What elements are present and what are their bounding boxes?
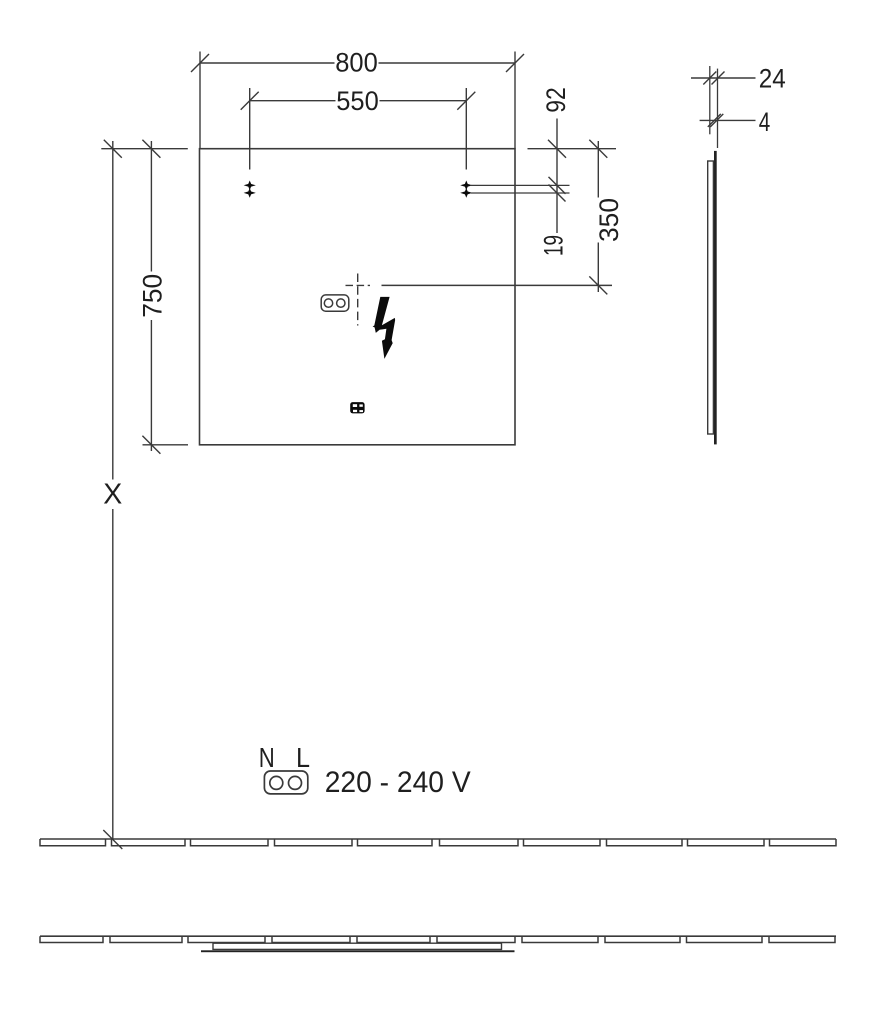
extension line mirror bottom left [143, 444, 189, 446]
side view extension line front [717, 69, 719, 148]
svg-text:19: 19 [539, 235, 569, 256]
socket symbol on mirror: body [321, 295, 349, 311]
dim 800 tick left [191, 54, 209, 72]
svg-text:24: 24 [759, 64, 786, 94]
dim 350 line [597, 141, 599, 292]
lightning bolt arrow [373, 297, 396, 359]
mounting star lower-left [245, 189, 254, 197]
supply socket hole N [270, 776, 283, 789]
svg-text:N: N [259, 742, 275, 773]
mirror front view outline [200, 149, 516, 445]
dim 24 line [691, 77, 756, 79]
dim 750 tick bottom [142, 436, 160, 454]
mount slot line upper [471, 184, 570, 186]
dim X tick top [104, 140, 122, 158]
socket symbol on mirror: hole right [337, 299, 345, 307]
side view extension line back [709, 66, 711, 134]
svg-text:350: 350 [594, 198, 624, 242]
crosshair horizontal dashed [346, 284, 371, 286]
svg-text:220 - 240 V: 220 - 240 V [325, 766, 471, 799]
mirror top view: back panel [213, 943, 502, 949]
dim 92/19 line [556, 119, 558, 234]
dim 550 line [250, 100, 467, 102]
dim 800 tick right [506, 54, 524, 72]
dim 92 tick top [548, 140, 566, 158]
mounting star upper-left [245, 182, 254, 190]
wall line top view: top line [40, 935, 836, 937]
mounting star lower-right [462, 189, 471, 197]
dim X line [112, 141, 114, 839]
svg-text:750: 750 [137, 274, 167, 318]
side view: glass pane [714, 151, 717, 445]
dim 19 tick upper [549, 177, 566, 194]
dim 550 extension line left [249, 88, 251, 170]
wall line front view: brick segments [40, 839, 836, 846]
dim 800 extension line left [199, 52, 201, 149]
dim 550 extension line right [465, 88, 467, 170]
socket symbol on mirror: hole left [324, 299, 332, 307]
svg-text:550: 550 [336, 86, 379, 116]
svg-text:92: 92 [541, 87, 571, 113]
svg-text:L: L [296, 742, 310, 773]
dim 4 tick b [710, 114, 723, 127]
mount slot line lower [471, 192, 570, 194]
supply socket symbol body [264, 771, 307, 794]
dim 19 tick lower [549, 185, 566, 202]
extension line mirror top left [101, 148, 188, 150]
extension line mirror top right [528, 148, 617, 150]
svg-text:800: 800 [335, 48, 378, 78]
dim X tick bottom [103, 830, 122, 849]
svg-text:X: X [103, 479, 122, 511]
dim 24 tick back [703, 72, 716, 85]
dim 350 tick top [589, 140, 607, 158]
mounting star upper-right [462, 182, 471, 190]
dim 550 tick right [457, 92, 475, 110]
dim 800 extension line right [514, 52, 516, 149]
dim 750 tick top [142, 140, 160, 158]
dim 750 line [150, 141, 152, 451]
crosshair vertical dashed [357, 274, 359, 326]
dim 350 tick bottom [589, 276, 607, 294]
wall line top view: brick segments [40, 936, 835, 942]
dim 4 line [700, 119, 756, 121]
dim 550 tick left [241, 92, 259, 110]
dim 24 tick front [712, 72, 725, 85]
supply socket hole L [289, 776, 302, 789]
centre reference line right [382, 284, 613, 286]
wall line front view: top line [40, 838, 836, 840]
mirror top view: glass [201, 950, 515, 952]
dim 4 tick a [708, 114, 721, 127]
dim 800 line [200, 62, 515, 64]
mini socket mark bottom of mirror [350, 402, 364, 413]
side view: back panel [708, 161, 714, 434]
svg-text:4: 4 [759, 107, 771, 137]
